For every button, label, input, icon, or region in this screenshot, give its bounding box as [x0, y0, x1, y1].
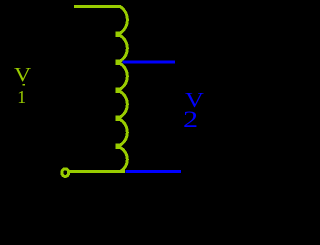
wire bottom V2 return (blue) [126, 170, 181, 173]
wire bottom lead [70, 170, 126, 173]
wire tap to V2 top (blue) [122, 61, 174, 64]
inductor turn 3 [115, 64, 127, 90]
inductor turn 2 [115, 36, 127, 62]
terminal circle (open terminal) [62, 169, 69, 177]
label V2 letter V [185, 90, 204, 111]
inductor turn 4 [115, 92, 127, 118]
label V2 subscript 2 [183, 109, 198, 133]
label V1 letter V [14, 66, 31, 86]
label V1 subscript 1 [17, 89, 26, 107]
inductor turn 6 [115, 148, 127, 172]
inductor turn 5 [115, 120, 127, 146]
label V1 vertex dash [22, 84, 25, 86]
wire top lead into coil (turn 1 of winding) [74, 7, 128, 33]
